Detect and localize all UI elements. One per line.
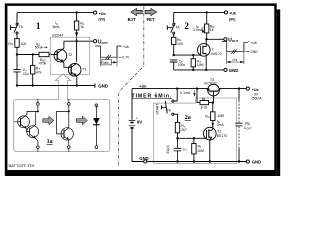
svg-text:10µ: 10µ [244,122,250,126]
wire Ru to node [16,47,18,54]
wire T2 collector up [63,41,65,48]
darlington wiring [14,105,38,124]
block arrow FET (right) [145,8,157,15]
darlington terminals [37,99,39,102]
resistor RB2 470k [39,52,49,56]
svg-text:100n: 100n [178,63,186,67]
transistor T2a [18,116,30,128]
capacitor CT 100n circuit 2 [170,60,177,70]
svg-text:GND: GND [98,84,108,89]
svg-text:1: 1 [36,21,41,31]
svg-text:1a: 1a [47,139,53,145]
terminal UOUT circuit 2 [224,38,227,41]
transistor T1 [68,63,81,85]
wire button to Ru [16,34,18,38]
gray arrow right 1 [43,116,54,125]
svg-text:1k: 1k [210,28,214,32]
wire top rail 1 [17,12,93,14]
break slashes [231,50,236,54]
texts circuit 1 [8,12,130,89]
waveform circuit 2 [222,41,250,64]
hollow arrow up link [55,74,70,100]
level tick 0.7V [118,56,121,58]
wire RB2 to T2 base [49,54,57,56]
0.1mA branch + resistor 6k8 [197,89,200,103]
wire T2 emitter to T1 base [64,63,71,68]
svg-text:+Ub: +Ub [123,45,129,49]
gray arrow right 2 [76,116,87,125]
waveform trace [222,41,248,51]
terminal GND battery [144,160,147,163]
svg-text:2a: 2a [185,115,191,121]
resistor RT 10M 2a [193,138,195,143]
svg-text:T1: T1 [82,68,86,72]
node drain/output [205,38,207,40]
terminal GND right [246,160,249,163]
svg-text:FET: FET [147,17,155,22]
wire node row [17,54,39,56]
diode equivalent [95,104,98,107]
capacitor COUT 10u [238,89,240,101]
texts circuit 2 [176,12,259,73]
current arrow IC [75,33,78,37]
svg-text:CT: CT [183,147,187,152]
svg-text:9V: 9V [137,120,142,125]
current arrow ID 2mA [212,123,215,126]
pushbutton TA START [174,89,177,101]
BC547 box [50,37,89,74]
svg-text:TIMER 6Min.: TIMER 6Min. [132,93,173,99]
svg-text:0.7V: 0.7V [122,55,130,59]
measure guides [101,47,118,67]
svg-text:GND: GND [250,50,258,54]
break slashes [106,55,111,60]
resistor RD 1k [206,12,208,24]
svg-text:START: START [156,104,160,115]
MOSFET T BS170 circuit 2 [198,44,211,57]
terminal +Ub circuit 1 [94,11,97,14]
texts circuit 2a [132,78,263,164]
svg-text:GND: GND [229,68,239,73]
svg-text:RG: RG [205,114,209,119]
measure arrows >1s [227,61,244,63]
node RT top [32,53,34,55]
block arrow BJT (left) [131,8,142,15]
transistor T1a [27,126,39,138]
resistor RT 10M circuit 2 [192,55,194,59]
wire button to Ru [173,34,175,37]
resistor RG 1M5 [212,103,214,112]
terminal +Ub circuit 2 [224,11,227,14]
resistor Ru 100 circuit 2 [172,37,176,44]
GND tick circuit 1 [94,83,96,87]
svg-text:6k: 6k [202,97,206,101]
waveform circuit 1 [95,46,122,66]
single transistor wiring (diode-connected) [57,105,69,134]
svg-text:GND: GND [252,159,261,164]
svg-text:BC560C: BC560C [204,82,217,86]
svg-text:+Ub: +Ub [140,85,148,89]
node collector [75,40,77,42]
resistor RT 47k circuit 1 [32,55,34,66]
transistor Tb [61,128,73,140]
svg-text:BC547: BC547 [52,33,63,37]
measure guides [227,43,244,64]
svg-text:BS170: BS170 [211,52,221,56]
svg-text:Ru: Ru [8,42,12,46]
wire left column [173,12,175,23]
svg-text:UOUT: UOUT [228,38,238,44]
waveform trace [95,46,122,57]
wire left column down to button [16,13,18,23]
svg-text:UOUT: UOUT [98,39,108,45]
current arrow 0.1mA [194,90,196,94]
capacitor CT 22u circuit 1 [13,55,20,86]
svg-text:470k: 470k [39,62,47,66]
resistor Rv 2k7 [175,122,179,132]
level ticks [245,51,249,53]
single transistor terminals [68,99,70,102]
pushbutton TA circuit 2 [173,23,175,25]
svg-text:100: 100 [21,42,27,46]
node CT row [176,137,178,139]
wire GND rail circuit 1 [17,85,95,87]
wire gate row 2a [178,137,207,139]
svg-text:+Ub: +Ub [99,12,107,16]
wire output row [207,38,224,40]
terminal +Ua [246,87,249,90]
svg-text:(50mA: (50mA [252,97,263,101]
svg-text:10M: 10M [197,63,204,67]
svg-text:1k: 1k [80,25,84,29]
svg-text:(+3): (+3) [201,105,207,109]
svg-text:T2: T2 [68,53,72,57]
Min box [102,60,111,65]
node top rail / Rc junction [75,11,77,13]
wire T1 emitter to GND rail [76,77,78,86]
wire top rail 2 [174,11,225,13]
svg-text:TA: TA [167,108,172,112]
transistor T2 [54,48,71,67]
resistor Rc 1k [76,13,78,21]
measure arrows Min [101,61,118,63]
svg-text:COUT: COUT [244,126,252,131]
svg-text:0.5mA: 0.5mA [193,28,204,32]
box 1a [14,99,110,151]
svg-text:(9V): (9V) [229,17,237,21]
wire top rail 2a [132,88,246,90]
wire gate row [174,54,201,56]
svg-text:BATTOFF.JTH: BATTOFF.JTH [9,163,35,168]
svg-text:33µ(!): 33µ(!) [166,145,170,154]
wire T1 collector column [76,41,78,62]
node gate row left [173,54,175,56]
frame with shadow [5,0,282,176]
terminal UOUT circuit 1 [94,40,97,43]
svg-text:>1s: >1s [232,58,238,62]
svg-text:BS170: BS170 [217,134,227,138]
svg-text:TA: TA [19,25,24,29]
resistor Ru 100 [15,39,19,48]
svg-text:+Ub: +Ub [229,12,237,16]
svg-text:BJT: BJT [128,17,136,22]
wire GND rail 2a [132,161,246,163]
svg-text:1M5: 1M5 [217,114,224,118]
wire collector row to UOUT [64,40,94,42]
svg-text:Min: Min [103,61,109,65]
svg-text:50nA: 50nA [35,46,44,50]
capacitor CT 33u [174,138,182,161]
svg-text:0.1mA: 0.1mA [180,91,191,95]
svg-text:(9V): (9V) [98,18,106,22]
svg-text:2: 2 [184,21,189,31]
svg-text:10M: 10M [197,149,204,153]
svg-text:+Ub: +Ub [251,41,257,45]
svg-text:GND: GND [139,156,148,161]
svg-text:5mA: 5mA [53,25,61,29]
current arrow ID [202,27,204,32]
terminal GND circuit 2 [224,68,227,71]
wire GND rail circuit 2 [174,69,224,71]
node input row circuit 1 [16,53,18,55]
svg-text:47k: 47k [36,70,42,74]
MOSFET T1 BS170 2a [204,127,217,140]
svg-text:100: 100 [177,42,183,46]
svg-text:2k7: 2k7 [181,128,187,132]
svg-text:22µ: 22µ [23,72,29,76]
battery 9V [131,89,133,162]
svg-text:+Ua: +Ua [252,88,260,92]
pushbutton TA circuit 1 [16,23,18,25]
transistor T3 BC560C (PNP) [208,84,220,96]
svg-text:2mA: 2mA [217,123,225,127]
gray detail box 2a [154,98,237,164]
divider dash-dot line [119,7,144,168]
